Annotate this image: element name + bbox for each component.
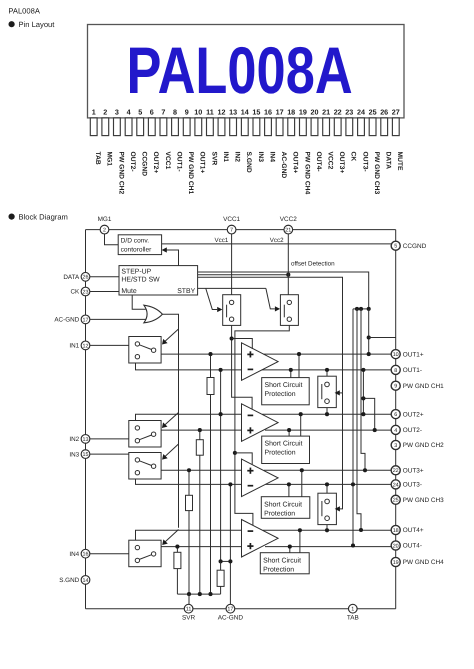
svg-text:AC-GND: AC-GND	[218, 615, 244, 622]
svg-text:13: 13	[229, 107, 237, 116]
svg-text:Short Circuit: Short Circuit	[265, 441, 303, 448]
svg-text:MUTE: MUTE	[396, 152, 403, 171]
svg-text:PW GND CH1: PW GND CH1	[403, 383, 444, 390]
pin 5 CCGND	[137, 107, 148, 176]
svg-text:Short Circuit: Short Circuit	[264, 501, 302, 508]
wire ch1 +row (OUT1+)	[161, 353, 241, 355]
svg-text:PW GND CH2: PW GND CH2	[117, 152, 124, 195]
svg-text:IN4: IN4	[268, 152, 275, 163]
wire ch1 -row (OUT1-)	[136, 363, 242, 370]
wire DATA input	[90, 276, 119, 278]
svg-text:2: 2	[103, 107, 107, 116]
wire mute arrow	[165, 444, 179, 457]
wire IN4	[90, 553, 129, 555]
node DATA pin 26	[81, 272, 90, 281]
svg-text:7: 7	[230, 228, 233, 234]
wire mute M2 top/bottom	[326, 484, 328, 493]
svg-text:Short Circuit: Short Circuit	[265, 382, 303, 389]
node CCGND pin 5	[391, 241, 400, 250]
svg-text:Protection: Protection	[265, 391, 296, 398]
svg-text:DATA: DATA	[63, 274, 80, 281]
wire bus v1	[352, 309, 354, 546]
pin 11 SVR	[206, 107, 217, 165]
op-amp A3	[242, 459, 279, 497]
svg-text:17: 17	[227, 607, 233, 613]
svg-text:15: 15	[83, 452, 89, 458]
pin 14 S.GND	[241, 107, 252, 172]
node OUT4+ pin 18	[391, 525, 400, 534]
wire ch3 -row (OUT3-)	[136, 479, 242, 484]
svg-text:12: 12	[218, 107, 226, 116]
svg-text:OUT3+: OUT3+	[403, 468, 424, 475]
svg-text:offset Detection: offset Detection	[291, 261, 335, 268]
wire SCP2 taps	[300, 414, 302, 436]
svg-text:OUT3+: OUT3+	[338, 152, 345, 174]
wire bus v4	[368, 309, 370, 354]
wire branch to amp3	[235, 453, 252, 464]
short circuit protection box U3	[261, 497, 310, 519]
input switch S1	[129, 337, 161, 364]
OR gate mute	[144, 305, 163, 323]
node MG1 pin 2	[100, 225, 109, 234]
svg-text:HE/STD SW: HE/STD SW	[121, 277, 160, 284]
svg-text:14: 14	[241, 107, 249, 116]
node IN3 pin 15	[81, 450, 90, 459]
svg-text:S.GND: S.GND	[245, 152, 252, 173]
input switch S2	[129, 421, 161, 448]
wire chain OUT1-/OUT2 links	[362, 370, 364, 414]
wire ch4 -row (OUT4+)	[136, 530, 242, 540]
svg-text:CK: CK	[70, 289, 80, 296]
svg-text:27: 27	[392, 107, 400, 116]
svg-text:7: 7	[161, 107, 165, 116]
pin 20 OUT4-	[311, 107, 322, 171]
svg-text:23: 23	[83, 289, 89, 295]
STBY switch SW-B	[280, 295, 298, 326]
svg-text:2: 2	[103, 228, 106, 234]
wire VCC1 switched feed to amp1/amp2	[232, 325, 253, 409]
svg-text:OUT2-: OUT2-	[129, 152, 136, 172]
node VCC2 pin 21	[284, 225, 293, 234]
wire OR output mute bus	[162, 314, 178, 528]
section bullet Pin Layout	[9, 20, 56, 29]
svg-text:Protection: Protection	[265, 450, 296, 457]
svg-text:20: 20	[311, 107, 319, 116]
svg-text:OUT4-: OUT4-	[403, 543, 422, 550]
wire SCP4 taps	[299, 530, 301, 552]
wire offset line L1	[198, 272, 369, 309]
wire ch3 minus vertical	[229, 484, 231, 604]
wire offset link to border	[369, 337, 396, 339]
svg-text:8: 8	[173, 107, 177, 116]
svg-text:26: 26	[380, 107, 388, 116]
wire SCP1 taps	[298, 354, 300, 378]
svg-text:STEP-UP: STEP-UP	[121, 269, 151, 276]
wire top VCC rail	[86, 229, 396, 231]
svg-text:19: 19	[299, 107, 307, 116]
svg-text:CCGND: CCGND	[403, 243, 427, 250]
wire branch to amp1	[232, 339, 253, 349]
svg-text:TAB: TAB	[347, 615, 359, 622]
wire AC-GND to OR gate	[90, 318, 147, 320]
svg-text:OUT2-: OUT2-	[403, 427, 422, 434]
svg-text:24: 24	[357, 107, 365, 116]
svg-text:PW GND CH3: PW GND CH3	[373, 152, 380, 195]
node OUT2- pin 4	[391, 425, 400, 434]
svg-text:26: 26	[83, 275, 89, 281]
op-amp A4	[242, 520, 279, 558]
node PW GND CH3 pin 25	[391, 495, 400, 504]
short circuit protection box U4	[260, 553, 309, 574]
wire STBY rail	[198, 287, 266, 289]
svg-text:PW GND CH1: PW GND CH1	[187, 152, 194, 195]
pin 17 AC-GND	[276, 107, 287, 178]
resistor R4	[174, 552, 181, 568]
short circuit protection box U2	[262, 436, 310, 463]
svg-text:20: 20	[393, 543, 399, 549]
node OUT3+ pin 22	[391, 466, 400, 475]
wire right border	[395, 230, 397, 609]
resistor R1	[207, 378, 214, 395]
svg-text:MG1: MG1	[106, 152, 113, 167]
svg-text:PAL008A: PAL008A	[127, 33, 353, 107]
svg-text:Mute: Mute	[121, 288, 136, 295]
wire VCC1 to STBY switch 1	[231, 234, 233, 295]
pin 27 MUTE	[392, 107, 403, 171]
svg-text:18: 18	[393, 528, 399, 534]
svg-text:16: 16	[264, 107, 272, 116]
wire Mute to OR gate	[132, 295, 145, 309]
svg-text:OUT1+: OUT1+	[199, 152, 206, 174]
wire R3 leads	[188, 470, 190, 495]
svg-text:6: 6	[150, 107, 154, 116]
pin 3 PW GND CH2	[114, 107, 125, 194]
pin 2 MG1	[102, 107, 113, 166]
pin 4 OUT2-	[125, 107, 136, 171]
svg-text:15: 15	[252, 107, 260, 116]
svg-text:IN4: IN4	[69, 551, 79, 558]
STBY switch SW-A	[223, 295, 241, 326]
wire left border	[85, 230, 87, 609]
wire IN3	[90, 453, 129, 455]
svg-text:STBY: STBY	[177, 288, 195, 295]
svg-text:PW GND CH2: PW GND CH2	[403, 442, 444, 449]
wire MG1 to D/D box	[105, 234, 119, 245]
svg-text:OUT3-: OUT3-	[403, 482, 422, 489]
svg-text:DATA: DATA	[385, 152, 392, 170]
svg-text:AC-GND: AC-GND	[280, 152, 287, 179]
svg-text:OUT1-: OUT1-	[403, 367, 422, 374]
svg-text:IN3: IN3	[69, 451, 79, 458]
wire mute M1 arrow	[340, 392, 343, 394]
wire SVR drop	[188, 594, 190, 604]
svg-text:VCC1: VCC1	[223, 216, 240, 223]
wire minus feedback vertical	[220, 370, 222, 562]
wire bus v3	[361, 309, 365, 470]
svg-text:OUT1+: OUT1+	[403, 351, 424, 358]
wire ch4 +row (OUT4-)	[161, 546, 241, 548]
svg-text:OUT2+: OUT2+	[152, 152, 159, 174]
wire STEP-UP to D/D arrow	[167, 250, 179, 266]
svg-text:Vcc2: Vcc2	[270, 237, 284, 244]
IC title PAL008A	[127, 33, 353, 107]
node IN2 pin 13	[81, 435, 90, 444]
svg-text:1: 1	[351, 607, 354, 613]
wire Vcc line to CCGND	[162, 243, 392, 245]
node IN4 pin 16	[81, 549, 90, 558]
svg-text:OUT4+: OUT4+	[292, 152, 299, 174]
wire jumper	[221, 560, 231, 562]
pin 19 PW GND CH4	[299, 107, 310, 194]
node TAB pin 1 bottom	[348, 604, 357, 613]
svg-text:10: 10	[194, 107, 202, 116]
node OUT2+ pin 6	[391, 410, 400, 419]
wire R2 leads	[199, 430, 201, 440]
node S.GND pin 14	[81, 576, 90, 585]
svg-text:Protection: Protection	[264, 510, 295, 517]
wire CK input	[90, 291, 119, 293]
svg-text:22: 22	[334, 107, 342, 116]
svg-text:D/D conv.: D/D conv.	[121, 238, 150, 245]
svg-text:PW GND CH3: PW GND CH3	[403, 497, 444, 504]
pin 16 IN4	[264, 107, 275, 162]
pin 15 IN3	[252, 107, 263, 162]
pin 1 TAB	[90, 107, 101, 165]
node VCC1 pin 7	[227, 225, 236, 234]
wire mute bus feed L2	[198, 277, 343, 393]
svg-text:10: 10	[393, 352, 399, 358]
wire ch2 +row (OUT2-)	[161, 429, 241, 431]
svg-text:CK: CK	[350, 152, 357, 162]
node AC-GND pin 17	[81, 315, 90, 324]
svg-text:S.GND: S.GND	[59, 577, 79, 584]
resistor R5	[217, 570, 224, 586]
svg-text:17: 17	[276, 107, 284, 116]
svg-text:19: 19	[393, 560, 399, 566]
wire bottom rail	[86, 608, 396, 610]
pin 7 VCC1	[160, 107, 171, 169]
wire mute bus lower + M2 arrow	[340, 393, 343, 509]
svg-text:OUT2+: OUT2+	[403, 411, 424, 418]
wire R1 leads	[210, 354, 212, 377]
node CK pin 23	[81, 287, 90, 296]
pin 10 OUT1+	[194, 107, 205, 173]
svg-text:PW GND CH4: PW GND CH4	[403, 559, 444, 566]
svg-text:9: 9	[394, 384, 397, 390]
svg-text:OUT3-: OUT3-	[361, 152, 368, 172]
svg-text:IN1: IN1	[69, 343, 79, 350]
svg-text:PW GND CH4: PW GND CH4	[303, 152, 310, 195]
wire offset line L3	[198, 274, 289, 276]
wire R5 leads	[220, 561, 222, 570]
svg-text:8: 8	[394, 368, 397, 374]
svg-text:PAL008A: PAL008A	[8, 7, 40, 16]
pin 8 OUT1-	[172, 107, 183, 171]
svg-text:23: 23	[345, 107, 353, 116]
resistor R2	[196, 440, 203, 456]
svg-text:17: 17	[83, 317, 89, 323]
svg-text:IN2: IN2	[69, 436, 79, 443]
svg-text:21: 21	[322, 107, 330, 116]
section bullet Block Diagram	[9, 212, 68, 221]
wire bus v2	[357, 309, 361, 530]
svg-text:VCC2: VCC2	[327, 152, 334, 170]
svg-text:SVR: SVR	[210, 152, 217, 166]
wire ch3 +row (OUT3+)	[161, 469, 241, 471]
wire IN1	[90, 344, 129, 346]
wire VCC2 switched feed to amp3/amp4	[235, 325, 289, 525]
D/D conv. contoroller box	[118, 235, 161, 255]
op-amp A1	[242, 343, 279, 381]
svg-text:SVR: SVR	[182, 615, 196, 622]
pin 25 PW GND CH3	[369, 107, 380, 194]
svg-text:25: 25	[369, 107, 377, 116]
svg-text:9: 9	[185, 107, 189, 116]
svg-text:IN3: IN3	[257, 152, 264, 163]
wire SCP3 taps	[301, 470, 303, 496]
svg-text:12: 12	[83, 343, 89, 349]
input switch S4	[129, 540, 161, 567]
wire offset stub	[353, 308, 369, 310]
svg-text:5: 5	[394, 244, 397, 250]
mute switch M1	[318, 376, 337, 407]
svg-text:Block Diagram: Block Diagram	[19, 212, 68, 221]
pin 18 OUT4+	[287, 107, 298, 173]
pin 12 IN1	[218, 107, 229, 162]
svg-text:24: 24	[393, 482, 399, 488]
node IN1 pin 12	[81, 341, 90, 350]
node OUT1+ pin 10	[391, 350, 400, 359]
wire mute M1 top/bottom	[326, 370, 328, 376]
pin 22 OUT3+	[334, 107, 345, 173]
svg-text:11: 11	[206, 107, 214, 116]
pin 24 OUT3-	[357, 107, 368, 171]
svg-text:contoroller: contoroller	[121, 247, 153, 254]
svg-text:MG1: MG1	[98, 216, 112, 223]
svg-text:IN1: IN1	[222, 152, 229, 163]
svg-text:TAB: TAB	[94, 152, 101, 165]
wire mute arrow	[165, 530, 179, 543]
node PW GND CH1 pin 9	[391, 381, 400, 390]
node OUT4- pin 20	[391, 541, 400, 550]
node AC-GND pin 17 bottom	[226, 604, 235, 613]
wire mute arrow	[164, 413, 178, 426]
svg-text:4: 4	[127, 107, 131, 116]
svg-text:21: 21	[285, 228, 291, 234]
svg-text:Vcc1: Vcc1	[215, 237, 229, 244]
svg-text:3: 3	[115, 107, 119, 116]
node SVR pin 11 bottom	[184, 604, 193, 613]
node OUT3- pin 24	[391, 480, 400, 489]
svg-text:13: 13	[83, 437, 89, 443]
svg-text:11: 11	[186, 607, 192, 613]
pin 21 VCC2	[322, 107, 333, 169]
IC package outline	[88, 25, 405, 118]
short circuit protection box U1	[262, 378, 310, 405]
node PW GND CH4 pin 19	[391, 557, 400, 566]
wire bottom junction line	[177, 593, 220, 595]
wire mute arrow	[165, 329, 179, 342]
svg-text:16: 16	[83, 552, 89, 558]
node PW GND CH2 pin 3	[391, 440, 400, 449]
mute switch M2	[318, 493, 337, 524]
wire VCC2 to STBY switch 2	[287, 234, 289, 295]
svg-text:Protection: Protection	[263, 566, 294, 573]
pin 23 CK	[345, 107, 356, 161]
svg-text:3: 3	[394, 443, 397, 449]
svg-text:VCC1: VCC1	[164, 152, 171, 170]
svg-text:AC-GND: AC-GND	[54, 317, 79, 324]
svg-text:CCGND: CCGND	[141, 152, 148, 177]
svg-text:Pin Layout: Pin Layout	[19, 20, 56, 29]
svg-text:OUT4+: OUT4+	[403, 527, 424, 534]
wire IN2	[90, 438, 129, 440]
svg-text:IN2: IN2	[234, 152, 241, 163]
pin 6 OUT2+	[148, 107, 159, 173]
svg-text:5: 5	[138, 107, 142, 116]
svg-text:6: 6	[394, 412, 397, 418]
svg-text:18: 18	[287, 107, 295, 116]
pin 26 DATA	[380, 107, 391, 169]
svg-text:OUT4-: OUT4-	[315, 152, 322, 172]
svg-text:4: 4	[394, 428, 397, 434]
svg-text:VCC2: VCC2	[280, 216, 297, 223]
wire STBY arrow to switch 1	[206, 289, 217, 310]
node OUT1- pin 8	[391, 365, 400, 374]
wire STBY arrow to switch 2	[266, 288, 275, 309]
pin 13 IN2	[229, 107, 240, 162]
svg-text:OUT1-: OUT1-	[175, 152, 182, 172]
input switch S3	[129, 453, 161, 480]
svg-text:25: 25	[393, 498, 399, 504]
pin 9 PW GND CH1	[183, 107, 194, 194]
svg-text:Short Circuit: Short Circuit	[263, 557, 301, 564]
wire ch2 -row (OUT2+)	[136, 414, 242, 420]
resistor R3	[186, 495, 193, 510]
svg-text:22: 22	[393, 468, 399, 474]
svg-text:14: 14	[83, 578, 89, 584]
wire R4 leads	[176, 547, 178, 553]
op-amp A2	[242, 404, 279, 442]
STEP-UP HE/STD SW box	[119, 266, 198, 295]
svg-text:1: 1	[92, 107, 96, 116]
